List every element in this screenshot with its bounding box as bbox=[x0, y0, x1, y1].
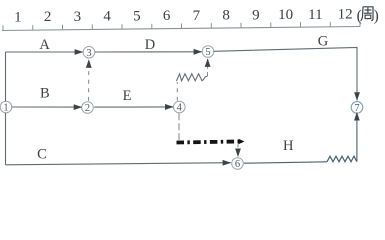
svg-text:11: 11 bbox=[308, 7, 322, 23]
node 2 bbox=[82, 102, 94, 114]
svg-text:10: 10 bbox=[278, 7, 293, 23]
svg-text:1: 1 bbox=[3, 103, 8, 114]
activity C arrow 1->6 bbox=[6, 163, 231, 165]
free float link 4->5: dashed riser bbox=[176, 82, 178, 101]
svg-text:12: 12 bbox=[338, 7, 353, 23]
svg-text:5: 5 bbox=[205, 47, 210, 58]
timescale ruler baseline bbox=[2, 27, 360, 31]
svg-text:C: C bbox=[37, 147, 47, 163]
svg-text:6: 6 bbox=[163, 8, 171, 24]
wire: from node 1 up to row A bbox=[5, 52, 7, 101]
dashed drop with arrow into node 6 bbox=[237, 144, 239, 156]
svg-text:D: D bbox=[145, 37, 155, 53]
svg-text:2: 2 bbox=[44, 9, 52, 25]
wire: dashed drop from node 4 bbox=[178, 113, 180, 140]
activity G arrow 5->7 bbox=[214, 48, 357, 101]
ruler week numbers bbox=[14, 7, 352, 26]
svg-text:7: 7 bbox=[354, 103, 359, 114]
dashed riser with arrow into node 5 bbox=[207, 59, 209, 76]
node 7 bbox=[351, 102, 363, 114]
wire: from node 1 down to row C bbox=[5, 113, 7, 165]
svg-text:7: 7 bbox=[193, 8, 201, 24]
free float zigzag on H bbox=[327, 156, 357, 162]
svg-text:5: 5 bbox=[133, 8, 141, 24]
activity E arrow 2->4 bbox=[94, 106, 173, 108]
svg-text:A: A bbox=[39, 37, 50, 53]
周 character drawn as strokes bbox=[361, 7, 373, 21]
wire: riser with arrow into node 7 from below bbox=[356, 113, 358, 162]
svg-text:(: ( bbox=[357, 8, 362, 25]
activity H line 6->7 bbox=[244, 162, 327, 163]
activity B arrow 1->2 bbox=[12, 106, 82, 108]
svg-text:6: 6 bbox=[235, 159, 240, 170]
svg-text:H: H bbox=[283, 138, 294, 154]
svg-text:4: 4 bbox=[177, 103, 183, 114]
svg-text:1: 1 bbox=[14, 9, 22, 25]
svg-text:8: 8 bbox=[222, 8, 230, 24]
svg-text:E: E bbox=[123, 88, 132, 104]
bold dash-dot relation line 4->6 bbox=[177, 142, 239, 143]
node 5 bbox=[202, 46, 214, 58]
dummy arrow 2->3 (dashed vertical) bbox=[88, 60, 90, 101]
bold arrowhead of relation line bbox=[239, 139, 245, 145]
node 4 bbox=[174, 101, 186, 113]
ruler ticks bbox=[3, 22, 360, 31]
activity D arrow 3->5 bbox=[95, 51, 202, 53]
svg-text:3: 3 bbox=[86, 48, 91, 59]
node 3 bbox=[83, 47, 95, 59]
activity A arrow 1->3 bbox=[6, 51, 83, 53]
svg-text:G: G bbox=[318, 34, 329, 50]
svg-text:B: B bbox=[40, 86, 50, 102]
svg-text:3: 3 bbox=[74, 9, 82, 25]
svg-text:9: 9 bbox=[252, 7, 260, 23]
node 1 bbox=[0, 101, 12, 113]
svg-text:4: 4 bbox=[103, 9, 111, 25]
free float wave line bbox=[176, 74, 207, 81]
svg-text:2: 2 bbox=[85, 103, 90, 114]
(周) unit label bbox=[357, 8, 379, 25]
node 6 bbox=[232, 158, 244, 170]
svg-text:): ) bbox=[374, 8, 379, 25]
